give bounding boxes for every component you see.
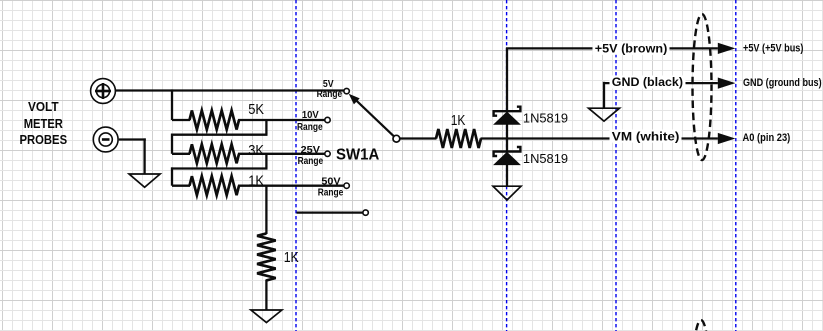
svg-text:SW1A: SW1A — [336, 146, 379, 163]
svg-text:+5V (+5V bus): +5V (+5V bus) — [743, 42, 804, 54]
svg-text:50V: 50V — [321, 176, 341, 187]
svg-text:Range: Range — [297, 122, 323, 133]
svg-text:1K: 1K — [284, 249, 299, 266]
svg-text:A0 (pin 23): A0 (pin 23) — [743, 132, 791, 144]
svg-text:VM (white): VM (white) — [612, 129, 680, 143]
svg-text:PROBES: PROBES — [20, 132, 68, 147]
svg-text:3K: 3K — [248, 142, 264, 159]
svg-text:GND (ground bus): GND (ground bus) — [743, 77, 822, 89]
svg-text:10V: 10V — [302, 110, 319, 121]
svg-text:1N5819: 1N5819 — [523, 151, 568, 166]
svg-text:GND (black): GND (black) — [612, 75, 683, 89]
svg-text:1K: 1K — [451, 112, 466, 129]
svg-text:Range: Range — [318, 188, 344, 199]
svg-text:METER: METER — [24, 116, 64, 131]
svg-text:VOLT: VOLT — [28, 99, 59, 114]
svg-text:Range: Range — [298, 156, 324, 167]
svg-text:Range: Range — [317, 89, 343, 100]
svg-text:1K: 1K — [248, 172, 264, 189]
svg-text:25V: 25V — [301, 145, 321, 156]
svg-text:1N5819: 1N5819 — [523, 111, 568, 126]
svg-text:5K: 5K — [248, 101, 264, 118]
svg-text:+5V (brown): +5V (brown) — [595, 41, 668, 55]
